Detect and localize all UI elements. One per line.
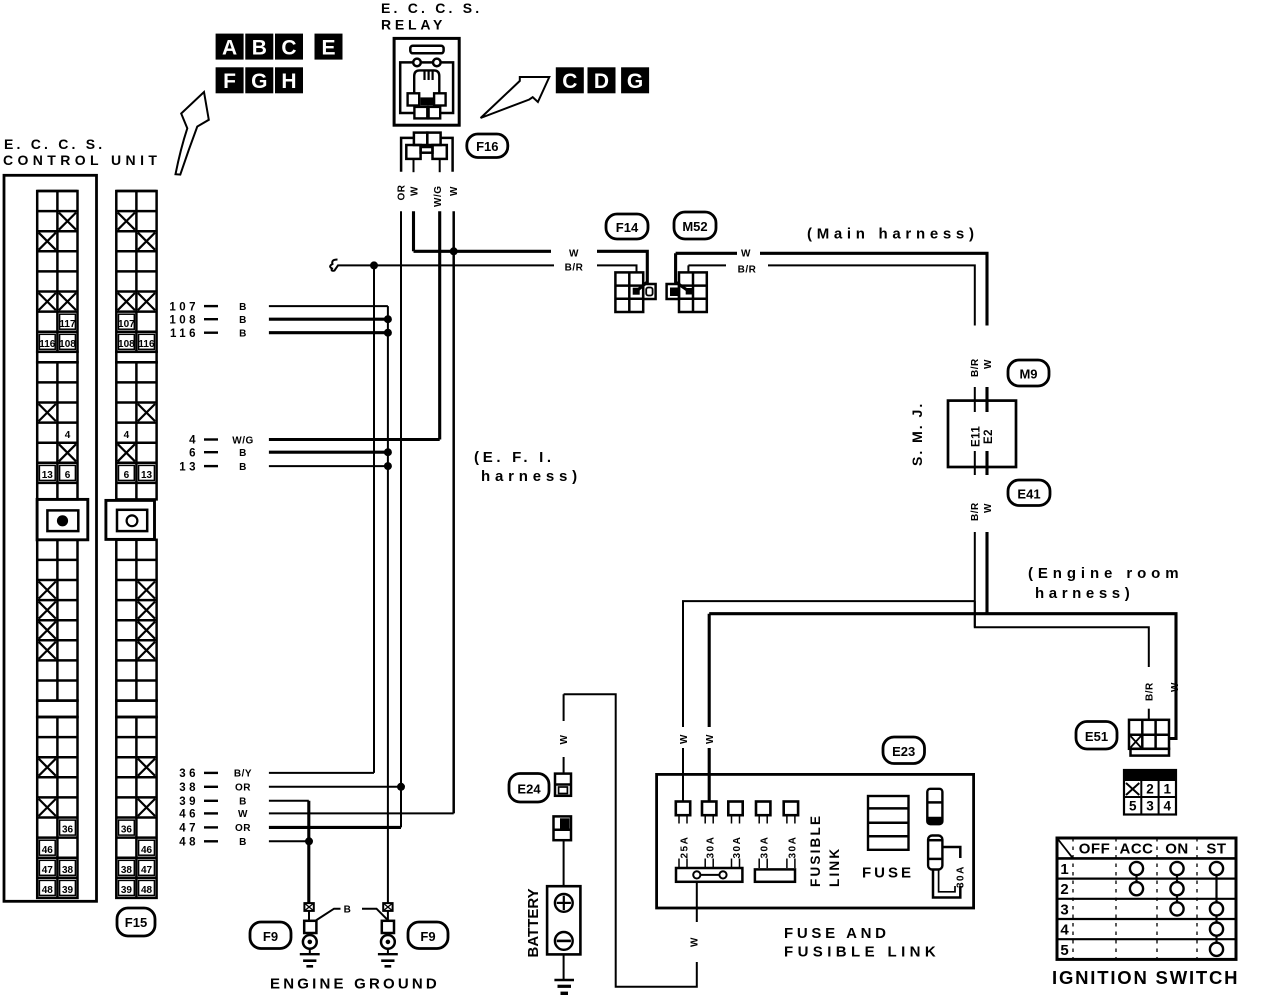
svg-text:38: 38 xyxy=(121,865,133,876)
svg-text:107: 107 xyxy=(169,301,199,313)
connector E51 label xyxy=(1076,722,1117,750)
connector F14 grid xyxy=(615,272,655,312)
svg-text:46: 46 xyxy=(141,845,153,856)
left ground symbol xyxy=(300,949,320,967)
battery terminal connector upper xyxy=(555,774,571,796)
svg-text:B: B xyxy=(239,462,247,473)
svg-text:CONTROL UNIT: CONTROL UNIT xyxy=(3,152,161,168)
wire W from fusible link bar to battery xyxy=(564,694,697,986)
relay outer box xyxy=(394,38,459,125)
battery minus terminal xyxy=(555,932,573,950)
index letter boxes C D G xyxy=(556,67,649,93)
wire pin6 B xyxy=(269,451,388,454)
svg-text:6: 6 xyxy=(189,447,199,459)
svg-text:1: 1 xyxy=(1060,861,1068,878)
connector E51 grid xyxy=(1129,720,1169,756)
fuse pullout bottom 30A xyxy=(928,836,966,898)
fusible link 30A #5 xyxy=(784,802,799,869)
wire pin116 B xyxy=(269,331,388,334)
wire OR vertical from relay xyxy=(400,211,402,827)
svg-text:W: W xyxy=(559,735,570,745)
svg-text:3: 3 xyxy=(1060,901,1068,918)
wire W/G vertical from relay xyxy=(438,211,441,439)
ECU pin rows 4 6 13 xyxy=(179,435,254,474)
E.C.C.S. RELAY title xyxy=(381,0,482,33)
svg-text:M52: M52 xyxy=(682,219,707,234)
svg-text:107: 107 xyxy=(118,319,135,330)
wire pin108 B xyxy=(269,318,388,321)
svg-text:116: 116 xyxy=(170,328,199,340)
svg-text:13: 13 xyxy=(42,470,54,481)
svg-text:38: 38 xyxy=(62,865,74,876)
ECU connector strip 1 xyxy=(37,191,88,898)
ground wire label B left xyxy=(316,909,341,921)
svg-text:W/G: W/G xyxy=(232,435,254,446)
wire pin47 OR xyxy=(269,826,401,829)
svg-text:ON: ON xyxy=(1165,841,1189,858)
svg-text:W: W xyxy=(238,809,248,820)
relay inner box xyxy=(400,62,453,113)
svg-text:30A: 30A xyxy=(787,836,798,859)
connector E41 label xyxy=(1008,480,1050,506)
svg-text:D: D xyxy=(594,70,609,93)
FUSE AND FUSIBLE LINK caption xyxy=(784,925,940,961)
svg-text:5: 5 xyxy=(1129,799,1137,814)
svg-text:36: 36 xyxy=(179,768,199,780)
svg-text:(Engine room: (Engine room xyxy=(1028,565,1183,582)
svg-text:F9: F9 xyxy=(263,929,278,944)
svg-text:13: 13 xyxy=(179,461,199,473)
wire W through SMJ xyxy=(985,387,988,614)
svg-text:E2: E2 xyxy=(983,429,995,444)
ignition switch table xyxy=(1057,838,1236,959)
svg-text:A: A xyxy=(222,37,237,60)
svg-text:E23: E23 xyxy=(892,744,915,759)
connector M52 grid xyxy=(667,272,707,312)
svg-text:W: W xyxy=(569,249,579,260)
svg-text:4: 4 xyxy=(1060,922,1069,939)
ECU pin rows 107 108 116 xyxy=(169,301,247,340)
svg-text:48: 48 xyxy=(179,837,199,849)
svg-text:E41: E41 xyxy=(1017,487,1040,502)
wire pin13 B xyxy=(269,465,388,467)
svg-text:OR: OR xyxy=(235,783,251,794)
svg-text:FUSIBLE: FUSIBLE xyxy=(808,814,823,887)
wire W battery feed xyxy=(563,694,565,773)
svg-text:4: 4 xyxy=(65,430,71,441)
svg-text:IGNITION SWITCH: IGNITION SWITCH xyxy=(1052,967,1239,988)
connector M9 label xyxy=(1008,360,1049,386)
Engine room harness note xyxy=(1028,565,1183,602)
fuse block symbol xyxy=(868,796,909,850)
connector F15 label xyxy=(117,908,155,936)
svg-text:4: 4 xyxy=(124,430,130,441)
svg-text:E. C. C. S.: E. C. C. S. xyxy=(381,0,482,16)
svg-text:B/R: B/R xyxy=(1145,682,1156,701)
svg-text:E51: E51 xyxy=(1085,729,1108,744)
svg-text:4: 4 xyxy=(1164,799,1172,814)
svg-text:6: 6 xyxy=(124,470,130,481)
ignition switch contact circles xyxy=(1130,862,1223,956)
ground wire label B right xyxy=(362,909,388,921)
relay slot xyxy=(410,46,443,54)
wire B/R horizontal with hook xyxy=(330,260,636,273)
connector M52 label xyxy=(674,212,716,239)
svg-text:ENGINE GROUND: ENGINE GROUND xyxy=(270,976,440,993)
svg-text:F16: F16 xyxy=(476,139,498,154)
svg-text:F: F xyxy=(223,70,236,93)
connector F14 label xyxy=(606,214,648,239)
svg-text:ACC: ACC xyxy=(1120,841,1154,858)
svg-text:48: 48 xyxy=(141,885,153,896)
svg-text:OR: OR xyxy=(235,823,251,834)
wire pin39 B xyxy=(269,800,309,802)
svg-text:ST: ST xyxy=(1206,841,1226,858)
svg-text:B/R: B/R xyxy=(565,263,584,274)
fusible link 30A #3 xyxy=(728,802,743,869)
wire B/R branch left to fuse xyxy=(683,601,975,728)
fuse pullout top xyxy=(927,789,942,824)
svg-text:E: E xyxy=(321,37,335,60)
svg-text:6: 6 xyxy=(65,470,71,481)
svg-text:B: B xyxy=(252,37,267,60)
svg-text:C: C xyxy=(562,70,577,93)
wire W vertical from relay to pin46 xyxy=(452,211,455,813)
svg-text:RELAY: RELAY xyxy=(381,17,446,33)
svg-text:38: 38 xyxy=(179,782,199,794)
fusible link 25A #1 xyxy=(676,802,691,869)
svg-text:FUSIBLE LINK: FUSIBLE LINK xyxy=(784,944,940,961)
wire pin46 W xyxy=(269,812,454,814)
svg-text:BATTERY: BATTERY xyxy=(525,888,542,957)
svg-text:F9: F9 xyxy=(420,929,435,944)
svg-text:B/R: B/R xyxy=(970,358,981,377)
svg-text:47: 47 xyxy=(42,865,54,876)
svg-text:3: 3 xyxy=(1146,799,1154,814)
wire to battery post xyxy=(563,840,565,886)
fusible link bus bar 2 xyxy=(755,869,795,881)
svg-text:2: 2 xyxy=(1146,782,1154,797)
junction dot W wires xyxy=(450,247,458,255)
relay contact squares xyxy=(408,93,420,105)
svg-text:G: G xyxy=(251,70,267,93)
battery terminal connector lower xyxy=(554,816,572,840)
svg-text:B: B xyxy=(239,315,247,326)
svg-text:W: W xyxy=(705,734,716,744)
relay lower squares xyxy=(414,107,427,119)
svg-text:108: 108 xyxy=(169,314,199,326)
svg-text:W: W xyxy=(679,734,690,744)
svg-text:25A: 25A xyxy=(680,836,691,859)
wire B/R through SMJ xyxy=(974,387,976,627)
wire B/R M52 to main harness xyxy=(688,265,974,325)
relay coil terminal circles xyxy=(413,59,421,67)
svg-text:W: W xyxy=(741,249,751,260)
connector E23 label xyxy=(883,737,925,764)
connector F9 label left xyxy=(250,922,291,949)
wire W into fuse box xyxy=(682,748,684,802)
wire B vertical to engine ground xyxy=(387,306,389,903)
svg-text:B: B xyxy=(344,905,352,916)
svg-text:W: W xyxy=(690,937,701,947)
SMJ box xyxy=(948,401,1016,467)
arrow to letter boxes CDG xyxy=(481,77,550,118)
battery box xyxy=(547,886,580,954)
right ground ring terminal xyxy=(381,903,395,949)
svg-text:W: W xyxy=(449,186,460,196)
ECU connector strip 2 xyxy=(106,191,157,898)
wire B/R down-right to E51 xyxy=(975,601,1149,667)
wire pin36 B/Y xyxy=(269,772,374,774)
wire pin107 B xyxy=(269,305,388,307)
wire B/Y vertical to pin36 xyxy=(373,265,375,773)
svg-text:B: B xyxy=(239,302,247,313)
svg-text:W: W xyxy=(983,359,994,369)
wire label W fuse2 xyxy=(702,727,716,746)
svg-text:B/Y: B/Y xyxy=(234,769,252,780)
ECU pin rows 36-48 xyxy=(179,768,252,848)
FUSIBLE LINK rotated label xyxy=(808,814,842,887)
fusible link bus bar with jumper xyxy=(676,868,742,882)
svg-text:C: C xyxy=(281,37,296,60)
svg-text:FUSE: FUSE xyxy=(862,865,914,882)
svg-text:M9: M9 xyxy=(1019,367,1037,382)
svg-text:(E. F. I.: (E. F. I. xyxy=(474,449,555,466)
svg-text:39: 39 xyxy=(179,796,199,808)
svg-text:W: W xyxy=(1170,682,1181,692)
svg-text:47: 47 xyxy=(141,865,153,876)
E.C.C.S. CONTROL UNIT title xyxy=(3,136,161,168)
svg-text:W/G: W/G xyxy=(433,186,444,208)
relay armature xyxy=(414,70,439,93)
svg-text:E11: E11 xyxy=(971,426,983,447)
index letter boxes A B C E xyxy=(216,34,343,60)
svg-text:30A: 30A xyxy=(760,836,771,859)
wire W M52 to main harness xyxy=(676,253,987,325)
svg-text:30A: 30A xyxy=(732,836,743,859)
svg-text:OR: OR xyxy=(397,184,408,200)
wire pin38 OR xyxy=(269,786,401,788)
junction dot B/R to pin36 xyxy=(370,261,378,269)
battery plus terminal xyxy=(555,894,573,912)
svg-text:FUSE AND: FUSE AND xyxy=(784,925,890,942)
svg-text:B/R: B/R xyxy=(970,502,981,521)
svg-text:E24: E24 xyxy=(517,782,541,797)
svg-text:B/R: B/R xyxy=(738,265,757,276)
svg-text:108: 108 xyxy=(118,339,135,350)
wire pin4 W/G xyxy=(269,438,440,441)
battery ground xyxy=(554,954,574,993)
svg-text:116: 116 xyxy=(39,339,56,350)
svg-text:2: 2 xyxy=(1060,881,1068,898)
svg-text:4: 4 xyxy=(189,435,199,447)
svg-text:F15: F15 xyxy=(125,915,147,930)
svg-text:B: B xyxy=(239,837,247,848)
svg-text:48: 48 xyxy=(42,885,54,896)
svg-text:E. C. C. S.: E. C. C. S. xyxy=(4,136,105,152)
svg-text:W: W xyxy=(410,186,421,196)
svg-text:46: 46 xyxy=(42,845,54,856)
svg-text:S. M. J.: S. M. J. xyxy=(909,402,925,466)
svg-text:5: 5 xyxy=(1060,942,1068,959)
connector F9 label right xyxy=(408,922,448,949)
relay socket connector xyxy=(401,133,453,173)
svg-text:13: 13 xyxy=(141,470,153,481)
svg-text:116: 116 xyxy=(138,339,155,350)
fusible link 30A #2 xyxy=(702,802,717,869)
wire B to left engine ground xyxy=(307,801,310,903)
svg-text:1: 1 xyxy=(1164,782,1172,797)
wire pin48 B xyxy=(269,840,309,842)
svg-text:30A: 30A xyxy=(956,865,967,888)
index letter boxes F G H xyxy=(216,67,303,93)
svg-text:B: B xyxy=(239,448,247,459)
svg-text:30A: 30A xyxy=(706,836,717,859)
svg-text:46: 46 xyxy=(179,809,199,821)
svg-text:OFF: OFF xyxy=(1079,841,1111,858)
control unit outer box xyxy=(4,175,97,901)
svg-text:39: 39 xyxy=(62,885,74,896)
svg-text:(Main harness): (Main harness) xyxy=(807,226,979,243)
arrow to letter boxes FGH xyxy=(176,92,209,175)
svg-text:47: 47 xyxy=(179,823,199,835)
svg-text:39: 39 xyxy=(121,885,133,896)
fusible link 30A #4 xyxy=(756,802,771,869)
svg-text:B: B xyxy=(239,797,247,808)
right ground symbol xyxy=(378,949,398,967)
E51 pin number table xyxy=(1124,770,1176,815)
svg-text:F14: F14 xyxy=(616,220,639,235)
svg-text:G: G xyxy=(627,70,643,93)
svg-text:117: 117 xyxy=(59,319,76,330)
wire label W fuse1 xyxy=(676,727,690,746)
connector F16 label xyxy=(467,134,508,158)
svg-text:H: H xyxy=(281,70,296,93)
fuse and fusible link box xyxy=(657,774,974,908)
svg-text:W: W xyxy=(983,503,994,513)
svg-text:B: B xyxy=(239,329,247,340)
wire W vertical from relay to F14 xyxy=(414,211,648,291)
svg-text:108: 108 xyxy=(59,339,76,350)
svg-text:LINK: LINK xyxy=(827,847,842,887)
wire W branch to fuse and E51 xyxy=(709,614,1176,739)
svg-text:36: 36 xyxy=(121,825,133,836)
E.F.I. harness note xyxy=(474,449,582,485)
svg-text:harness): harness) xyxy=(1035,585,1134,602)
relay contact blob xyxy=(421,97,434,105)
svg-text:36: 36 xyxy=(62,825,74,836)
connector E24 label xyxy=(509,774,549,803)
wire B/R tick into E51 xyxy=(1148,709,1150,720)
left ground ring terminal xyxy=(303,903,317,949)
svg-text:harness): harness) xyxy=(481,468,582,485)
